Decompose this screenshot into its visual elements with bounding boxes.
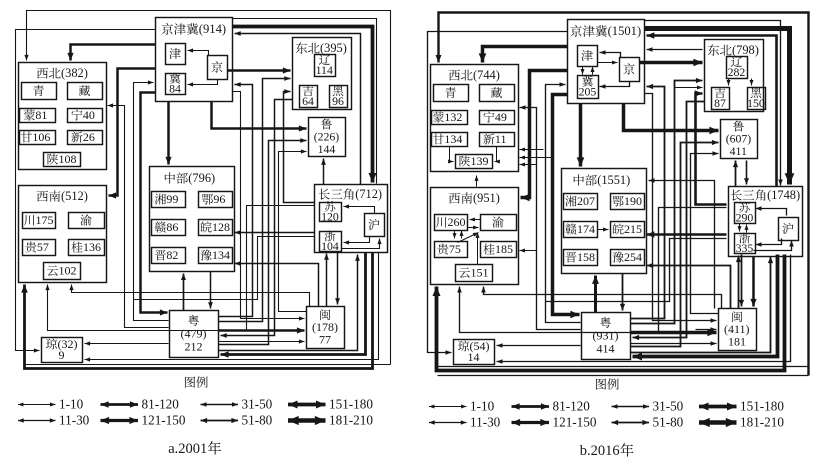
svg-text:84: 84 <box>169 82 181 96</box>
svg-text:64: 64 <box>302 94 314 108</box>
svg-text:121-150: 121-150 <box>553 414 597 429</box>
svg-text:81-120: 81-120 <box>142 396 180 411</box>
svg-text:75: 75 <box>449 242 461 256</box>
svg-text:134: 134 <box>212 248 230 262</box>
svg-text:132: 132 <box>444 110 462 124</box>
svg-text:411: 411 <box>730 144 747 158</box>
svg-text:181-210: 181-210 <box>329 412 373 427</box>
svg-text:190: 190 <box>624 194 642 208</box>
svg-text:(914): (914) <box>199 22 226 36</box>
svg-text:31-50: 31-50 <box>653 398 684 413</box>
svg-text:51-80: 51-80 <box>242 412 273 427</box>
svg-text:120: 120 <box>321 210 339 224</box>
svg-text:96: 96 <box>332 94 344 108</box>
svg-text:99: 99 <box>166 192 178 206</box>
svg-text:(1501): (1501) <box>608 24 642 38</box>
svg-text:57: 57 <box>37 240 49 254</box>
svg-text:151-180: 151-180 <box>740 398 784 413</box>
svg-text:106: 106 <box>32 130 50 144</box>
svg-text:136: 136 <box>83 240 101 254</box>
svg-text:(382): (382) <box>61 66 88 80</box>
svg-text:77: 77 <box>319 332 331 346</box>
svg-text:1-10: 1-10 <box>59 396 84 411</box>
svg-text:104: 104 <box>321 239 339 253</box>
svg-text:a.2001: a.2001 <box>168 441 207 457</box>
svg-text:150: 150 <box>747 96 765 110</box>
svg-text:158: 158 <box>577 250 595 264</box>
svg-text:26: 26 <box>83 130 95 144</box>
svg-text:185: 185 <box>495 242 513 256</box>
svg-text:144: 144 <box>318 142 336 156</box>
svg-text:207: 207 <box>577 194 595 208</box>
svg-text:139: 139 <box>471 154 489 168</box>
svg-text:51-80: 51-80 <box>653 414 684 429</box>
svg-text:(1748): (1748) <box>767 188 800 202</box>
svg-text:b.2016: b.2016 <box>580 443 620 459</box>
svg-text:(931): (931) <box>593 328 619 342</box>
svg-text:282: 282 <box>728 65 746 79</box>
svg-text:128: 128 <box>212 220 230 234</box>
svg-text:14: 14 <box>468 350 480 364</box>
svg-text:151-180: 151-180 <box>329 396 373 411</box>
svg-text:254: 254 <box>624 250 642 264</box>
svg-text:49: 49 <box>495 110 507 124</box>
svg-text:151: 151 <box>471 265 489 279</box>
svg-text:81: 81 <box>35 108 47 122</box>
svg-text:181: 181 <box>728 334 746 348</box>
svg-text:260: 260 <box>448 215 466 229</box>
svg-text:205: 205 <box>579 85 597 99</box>
svg-text:121-150: 121-150 <box>142 412 186 427</box>
svg-text:212: 212 <box>185 340 203 354</box>
svg-text:(744): (744) <box>473 68 500 82</box>
svg-text:174: 174 <box>577 222 595 236</box>
svg-text:11-30: 11-30 <box>470 414 501 429</box>
svg-text:181-210: 181-210 <box>740 414 784 429</box>
svg-text:11: 11 <box>495 132 507 146</box>
svg-text:(395): (395) <box>320 41 347 55</box>
svg-text:(796): (796) <box>188 171 215 185</box>
svg-text:11-30: 11-30 <box>59 412 90 427</box>
svg-text:(798): (798) <box>732 43 759 57</box>
svg-text:40: 40 <box>83 108 95 122</box>
svg-text:290: 290 <box>736 211 754 225</box>
svg-text:(479): (479) <box>181 326 207 340</box>
svg-text:96: 96 <box>213 192 225 206</box>
svg-text:82: 82 <box>166 248 178 262</box>
svg-text:9: 9 <box>59 348 65 362</box>
svg-text:114: 114 <box>316 63 333 77</box>
svg-text:86: 86 <box>166 220 178 234</box>
svg-text:(712): (712) <box>355 187 382 201</box>
svg-text:414: 414 <box>597 342 615 356</box>
svg-text:87: 87 <box>714 96 726 110</box>
svg-text:108: 108 <box>59 152 77 166</box>
svg-text:(951): (951) <box>473 191 500 205</box>
svg-text:(512): (512) <box>61 189 88 203</box>
svg-text:102: 102 <box>59 263 77 277</box>
svg-text:134: 134 <box>444 132 462 146</box>
svg-text:335: 335 <box>736 241 754 255</box>
svg-text:(1551): (1551) <box>597 173 630 187</box>
svg-text:31-50: 31-50 <box>242 396 273 411</box>
svg-text:215: 215 <box>624 222 642 236</box>
svg-text:175: 175 <box>36 213 54 227</box>
svg-text:1-10: 1-10 <box>470 398 495 413</box>
svg-text:81-120: 81-120 <box>553 398 591 413</box>
